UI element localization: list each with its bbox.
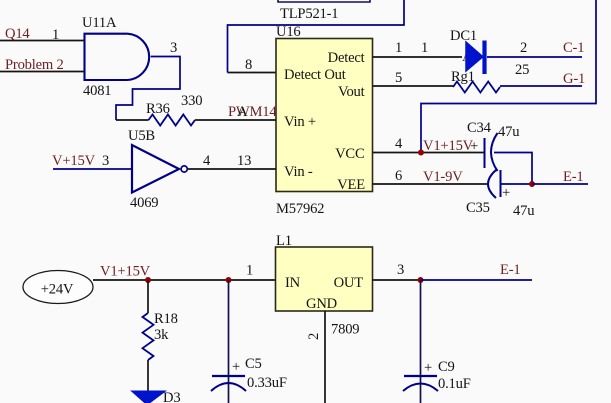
- svg-text:G-1: G-1: [563, 71, 585, 87]
- wire U16 VCC pin 4: [373, 152, 485, 154]
- svg-text:C35: C35: [466, 200, 490, 216]
- svg-text:V+15V: V+15V: [52, 153, 96, 169]
- wire GND pin 2: [324, 311, 326, 403]
- wire C34 to corner down to VEE row: [494, 153, 532, 185]
- junction at C9: [418, 277, 424, 283]
- svg-text:C9: C9: [438, 359, 455, 375]
- svg-text:8: 8: [245, 57, 252, 73]
- svg-text:+: +: [424, 360, 432, 376]
- wire U16 Detect pin 1: [373, 56, 463, 58]
- svg-text:330: 330: [181, 93, 202, 109]
- wire C9 branch: [420, 280, 422, 403]
- svg-text:Detect: Detect: [328, 50, 365, 66]
- diode D3 (cut off at bottom): [132, 390, 181, 403]
- junction at C5: [226, 277, 232, 283]
- svg-text:4: 4: [203, 153, 211, 169]
- wire U5B output pin 4 to U16 pin 13 Vin-: [188, 168, 277, 170]
- wire R18 branch: [147, 280, 149, 313]
- svg-text:0.33uF: 0.33uF: [247, 375, 287, 391]
- svg-text:4069: 4069: [130, 195, 158, 211]
- svg-text:C34: C34: [467, 120, 492, 136]
- capacitor C34 47u: [467, 120, 520, 171]
- svg-text:L1: L1: [276, 233, 292, 249]
- wire R36 to U16 Vin+: [195, 119, 276, 121]
- junction at R18: [145, 277, 151, 283]
- svg-text:V1-9V: V1-9V: [423, 169, 463, 185]
- svg-text:E-1: E-1: [500, 262, 520, 278]
- wire to net E-1: [532, 183, 588, 185]
- wire DC1 pin 2 to net C-1: [487, 56, 582, 58]
- svg-text:Vin +: Vin +: [284, 114, 316, 130]
- svg-text:1: 1: [52, 27, 59, 43]
- capacitor C5 0.33uF: [211, 356, 287, 391]
- optocoupler TLP521-1 box (cut off at top edge): [278, 0, 370, 22]
- svg-text:+: +: [470, 139, 478, 155]
- svg-text:25: 25: [515, 62, 529, 78]
- svg-text:R36: R36: [146, 101, 170, 117]
- svg-text:VEE: VEE: [337, 177, 365, 193]
- svg-text:PWM14: PWM14: [228, 104, 277, 120]
- svg-text:Vin -: Vin -: [284, 164, 313, 180]
- svg-text:VCC: VCC: [335, 146, 364, 162]
- svg-text:3: 3: [102, 153, 109, 169]
- svg-text:DC1: DC1: [450, 28, 477, 44]
- wire U16 VEE pin 6: [373, 183, 488, 185]
- svg-text:TLP521-1: TLP521-1: [280, 6, 338, 22]
- svg-text:U5B: U5B: [128, 128, 155, 144]
- AND gate U11A: [82, 15, 149, 99]
- svg-text:C5: C5: [245, 356, 262, 372]
- wire C35 to E-1 junction: [501, 183, 533, 185]
- svg-text:+: +: [232, 359, 240, 375]
- svg-text:5: 5: [395, 70, 402, 86]
- svg-text:4: 4: [395, 136, 403, 152]
- resistor Rg1: [451, 69, 500, 93]
- wire top-right feed: from top down x=596, left at y=103.5, down x=421 to VCC: [421, 0, 596, 153]
- svg-text:4081: 4081: [83, 83, 111, 99]
- diode DC1: [450, 28, 487, 74]
- svg-text:U16: U16: [276, 24, 301, 40]
- wire U16 Vout pin 5: [373, 85, 454, 87]
- svg-text:47u: 47u: [513, 203, 535, 219]
- wire Rg1 to net G-1: [500, 85, 582, 87]
- svg-text:Problem 2: Problem 2: [5, 57, 64, 73]
- wire to net E-1: [421, 279, 533, 281]
- svg-text:V1+15V: V1+15V: [423, 138, 474, 154]
- svg-text:A: A: [237, 104, 248, 120]
- wire L1 OUT pin 3: [373, 279, 421, 281]
- wire U11A output pin 3 with staircase to R36: [116, 57, 180, 121]
- svg-text:IN: IN: [285, 275, 301, 291]
- svg-text:Vout: Vout: [338, 84, 365, 100]
- svg-text:V1+15V: V1+15V: [100, 264, 151, 280]
- capacitor C35 47u: [466, 170, 535, 219]
- svg-text:0.1uF: 0.1uF: [438, 376, 471, 392]
- svg-text:13: 13: [237, 153, 251, 169]
- svg-text:E-1: E-1: [563, 169, 583, 185]
- svg-text:OUT: OUT: [334, 275, 364, 291]
- IC U16 M57962 body: [276, 24, 373, 217]
- power port +24V: [23, 271, 93, 304]
- resistor R36 330: [146, 93, 202, 126]
- wire R18 to D3: [147, 360, 149, 391]
- svg-text:D3: D3: [163, 390, 180, 403]
- svg-text:U11A: U11A: [82, 15, 117, 31]
- regulator L1 7809 body: [276, 233, 373, 338]
- svg-text:6: 6: [395, 168, 402, 184]
- svg-text:7809: 7809: [331, 322, 359, 338]
- wire +24V to L1 IN: [93, 279, 276, 281]
- wire pin 8 into U16: [228, 72, 277, 74]
- junction at VCC node: [418, 150, 424, 156]
- svg-text:1: 1: [246, 263, 253, 279]
- resistor R18 3k: [143, 311, 178, 360]
- inverter U5B: [128, 128, 187, 211]
- svg-text:3: 3: [170, 40, 177, 56]
- svg-text:M57962: M57962: [276, 201, 324, 217]
- svg-text:3: 3: [397, 262, 404, 278]
- svg-text:2: 2: [520, 40, 527, 56]
- svg-text:3k: 3k: [154, 327, 169, 343]
- svg-text:Detect Out: Detect Out: [284, 67, 346, 83]
- wire input V+15V pin 3: [53, 168, 133, 170]
- svg-text:Q14: Q14: [5, 26, 30, 42]
- wire into R36: [116, 119, 149, 121]
- capacitor C9 0.1uF: [403, 359, 471, 392]
- svg-text:+24V: +24V: [41, 282, 74, 298]
- svg-text:1: 1: [395, 40, 402, 56]
- svg-text:+: +: [502, 185, 510, 201]
- wire C5 branch: [228, 280, 230, 403]
- junction at E-1 node: [529, 181, 535, 187]
- svg-text:GND: GND: [306, 296, 337, 312]
- svg-text:C-1: C-1: [563, 40, 584, 56]
- wire input Problem 2: [0, 71, 85, 73]
- svg-text:2: 2: [306, 333, 322, 340]
- svg-text:47u: 47u: [498, 124, 520, 140]
- wire from top at x=404 down to y=25 left to x=227.5 down to pin 8: [228, 0, 405, 73]
- svg-text:R18: R18: [154, 311, 178, 327]
- svg-text:1: 1: [421, 40, 428, 56]
- wire input Q14 pin 1: [0, 40, 85, 42]
